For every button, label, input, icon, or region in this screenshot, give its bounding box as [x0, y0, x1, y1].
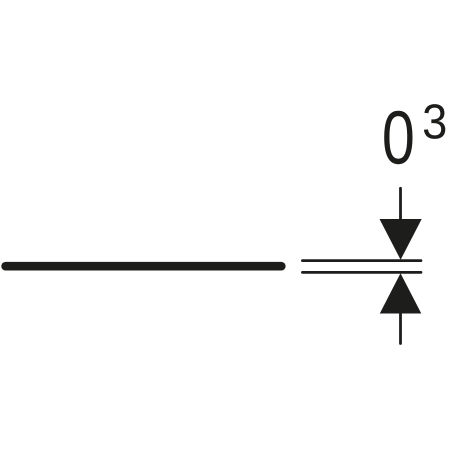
panel: thick horizontal line: [6, 262, 282, 271]
footnote superscript 3: [424, 104, 445, 139]
lower surface line: [302, 271, 421, 274]
bottom dimension arrow pointing up: [380, 273, 422, 343]
upper surface line: [302, 259, 421, 262]
dimension value 0: [384, 111, 412, 164]
top dimension arrow pointing down: [380, 188, 422, 259]
